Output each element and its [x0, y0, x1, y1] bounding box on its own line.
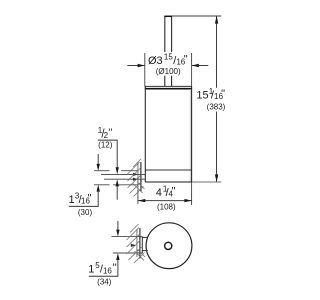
bracket plate top extension tick far — [94, 170, 110, 172]
bracket plate bottom extension tick far — [94, 184, 110, 186]
svg-text:1/2": 1/2" — [98, 126, 113, 141]
dim 12 lower tail — [116, 186, 118, 199]
svg-text:(30): (30) — [78, 208, 93, 217]
wall line extension to width dimension — [137, 190, 139, 204]
height dimension arrow down — [215, 174, 218, 182]
bottom view tab bottom line — [142, 250, 148, 252]
cylinder base ring line — [145, 169, 191, 171]
cylinder rim top line — [145, 85, 192, 87]
underline for 1 3/16 label — [69, 205, 99, 207]
center hole circle — [165, 242, 172, 249]
dim 34 upper arrowhead down — [116, 230, 119, 237]
diameter dimension right arrowhead — [192, 64, 199, 67]
brush rod top cap — [164, 15, 172, 17]
cylinder right inner gray line — [189, 89, 191, 182]
wall plate dark line side view — [140, 162, 142, 192]
wall hatching side view — [128, 159, 145, 197]
holder circle top view — [146, 223, 192, 269]
cylinder rim bottom line — [145, 88, 192, 90]
bottom view plate front line — [141, 237, 143, 253]
diameter dimension left arrow line — [127, 65, 145, 67]
height dimension line 15 1/16 upper segment — [216, 17, 218, 88]
svg-text:13/16": 13/16" — [69, 192, 92, 207]
bracket arm bottom line — [104, 178, 145, 180]
bottom view plate bottom edge — [140, 252, 142, 254]
cylinder right edge — [191, 86, 193, 182]
dim 30 upper arrowhead down — [97, 164, 100, 171]
bracket arm solid mark bottom — [133, 178, 138, 181]
brush rod right line — [171, 16, 173, 86]
diameter extension line left — [144, 53, 146, 87]
bottom view wall gray line — [136, 229, 138, 257]
diameter dimension right arrow line — [192, 65, 209, 67]
dim 34 bottom extension line — [113, 252, 140, 254]
dim 12 leader from label — [116, 140, 118, 167]
height dimension arrow up — [215, 16, 218, 24]
bracket plate bottom extension tick near — [113, 184, 138, 186]
width dimension line 4 1/4 — [138, 200, 192, 202]
bottom view wall dark line — [139, 228, 141, 259]
width dimension right arrowhead — [184, 199, 191, 202]
extension line from rod top to height dimension — [172, 15, 221, 17]
svg-text:(108): (108) — [157, 202, 176, 211]
dim 30 lower leader line — [97, 192, 99, 207]
bracket arm top line — [101, 173, 145, 175]
extension of right edge down to width dimension — [191, 182, 193, 205]
svg-text:151/16": 151/16" — [196, 87, 225, 102]
diameter dimension left arrowhead — [138, 64, 145, 67]
bottom view plate top edge — [140, 236, 142, 238]
svg-text:(Ø100): (Ø100) — [156, 67, 181, 76]
dim 34 lower leader — [117, 260, 119, 276]
svg-text:(34): (34) — [97, 277, 112, 286]
brush rod left line — [164, 16, 166, 86]
bottom view hatching — [127, 224, 146, 263]
dim 30 upper leader line — [97, 154, 99, 164]
bottom view tab top line — [142, 236, 148, 238]
underline for 1/2 label — [98, 139, 118, 141]
dim 34 top extension line — [112, 236, 140, 238]
bracket plate top extension tick near — [121, 170, 138, 172]
white mask for diameter label — [147, 52, 190, 76]
cylinder left edge — [144, 86, 146, 182]
height dimension line 15 1/16 lower segment — [216, 112, 218, 182]
width dimension left arrowhead — [138, 199, 145, 202]
wall line gray side view — [137, 163, 139, 190]
diameter extension line right — [191, 53, 193, 87]
svg-text:15/16": 15/16" — [88, 261, 117, 276]
svg-text:(12): (12) — [98, 140, 113, 149]
extension line from cylinder bottom to height dimension — [192, 181, 222, 183]
dim 34 lower arrowhead up — [116, 253, 119, 260]
svg-text:41/4": 41/4" — [156, 184, 176, 199]
cylinder bottom line — [145, 181, 191, 183]
dim 30 lower arrowhead up — [97, 185, 100, 192]
white mask for height label — [197, 88, 233, 111]
dim 12 arrowhead down — [116, 167, 119, 174]
bottom view solid mark — [131, 244, 136, 247]
dim 12 arrowhead up — [116, 179, 119, 186]
svg-text:(383): (383) — [207, 102, 226, 111]
underline for 1 5/16 label — [89, 275, 118, 277]
dim 34 upper leader — [117, 221, 119, 230]
bracket arm solid mark top — [133, 173, 138, 176]
